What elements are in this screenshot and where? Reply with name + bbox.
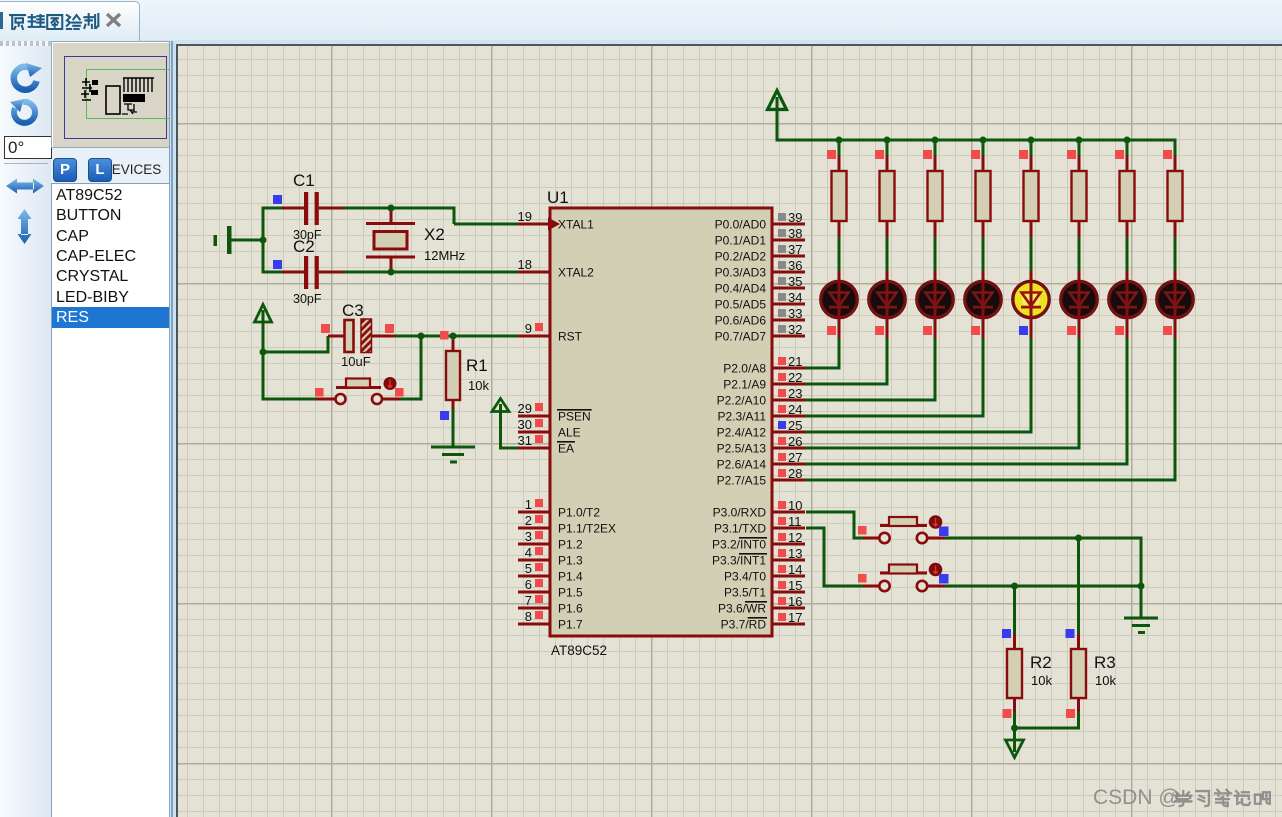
push button key2 <box>879 563 942 592</box>
svg-text:9: 9 <box>525 321 532 336</box>
svg-text:10uF: 10uF <box>341 354 371 369</box>
pin-state square above resistor <box>923 150 932 159</box>
svg-text:R2: R2 <box>1030 653 1052 672</box>
pin 31 (EA) of U1 <box>518 433 575 455</box>
left toolbar strip <box>0 46 51 817</box>
junction at ground tie <box>260 237 267 244</box>
list item CAP <box>56 226 89 247</box>
svg-text:P3.6/WR: P3.6/WR <box>718 601 766 615</box>
svg-text:R1: R1 <box>466 356 488 375</box>
pin-state square (C3 left) <box>321 324 330 333</box>
svg-text:P3.5/T1: P3.5/T1 <box>724 585 766 599</box>
pin-state square (button left) <box>315 388 324 397</box>
pin-state square (R2 top) <box>1002 629 1011 638</box>
svg-text:P2.5/A13: P2.5/A13 <box>717 441 767 455</box>
junction key2/ground <box>1138 583 1145 590</box>
pin 29 (PSEN) of U1 <box>518 401 592 423</box>
overview/preview panel <box>51 41 173 148</box>
svg-text:16: 16 <box>788 594 802 609</box>
pin 6 (P1.5) of U1 <box>518 577 583 599</box>
resistor R5 (LED ballast, column 2) <box>880 140 895 271</box>
push button key1 <box>879 515 942 543</box>
pin 26 (P2.5/A13) of U1 <box>717 434 805 455</box>
pin 37 (P0.2/AD2) of U1 <box>715 242 805 263</box>
svg-text:8: 8 <box>525 609 532 624</box>
pin 14 (P3.4/T0) of U1 <box>724 562 805 583</box>
pin-state square below LED <box>875 326 884 335</box>
svg-text:P0.0/AD0: P0.0/AD0 <box>715 217 767 231</box>
svg-text:38: 38 <box>788 226 802 241</box>
pin-state square above resistor <box>971 150 980 159</box>
ground symbol (bottom right) <box>1124 617 1158 635</box>
resistor R3 10k <box>1071 538 1086 730</box>
LED D1 <box>821 271 857 338</box>
svg-text:P3.1/TXD: P3.1/TXD <box>714 521 766 535</box>
junction on LED bus <box>1124 137 1131 144</box>
pin-state square (R3 bottom) <box>1066 709 1075 718</box>
svg-text:ALE: ALE <box>558 425 581 439</box>
svg-text:28: 28 <box>788 466 802 481</box>
resistor R7 (LED ballast, column 4) <box>976 140 991 271</box>
svg-text:P3.3/INT1: P3.3/INT1 <box>712 553 766 567</box>
svg-text:1: 1 <box>525 497 532 512</box>
svg-text:31: 31 <box>518 433 532 448</box>
svg-text:P2.3/A11: P2.3/A11 <box>718 409 767 423</box>
list item BUTTON <box>56 205 121 226</box>
svg-text:21: 21 <box>788 354 802 369</box>
resistor R1 10k <box>446 340 460 447</box>
svg-text:29: 29 <box>518 401 532 416</box>
svg-text:17: 17 <box>788 610 802 625</box>
LED D3 <box>917 271 953 338</box>
resistor R11 (LED ballast, column 8) <box>1168 140 1183 271</box>
splitter between panel and canvas <box>169 41 177 817</box>
svg-text:P0.1/AD1: P0.1/AD1 <box>715 233 767 247</box>
svg-text:22: 22 <box>788 370 802 385</box>
svg-text:P2.7/A15: P2.7/A15 <box>717 473 767 487</box>
junction RST node B <box>450 333 457 340</box>
DEVICES header text <box>102 162 161 177</box>
leftover tab fragment <box>0 12 3 29</box>
junction bottom tie <box>1011 725 1018 732</box>
svg-text:10k: 10k <box>1095 673 1116 688</box>
list item CRYSTAL <box>56 266 128 287</box>
pin 36 (P0.3/AD3) of U1 <box>715 258 805 279</box>
svg-text:15: 15 <box>788 578 802 593</box>
wire key2 to ground column <box>928 585 1143 588</box>
pin 7 (P1.6) of U1 <box>518 593 583 615</box>
pin 21 (P2.0/A8) of U1 <box>723 354 805 375</box>
list item LED-BIBY <box>56 287 129 308</box>
wire button left leg <box>263 398 335 401</box>
list item CAP-ELEC <box>56 246 136 267</box>
svg-text:C3: C3 <box>342 301 364 320</box>
svg-text:11: 11 <box>788 514 802 529</box>
pin-state square below LED <box>971 326 980 335</box>
wire P2.2 to LED column 3 <box>805 338 937 402</box>
pin-state square (key1 left) <box>858 526 867 535</box>
svg-text:12MHz: 12MHz <box>424 248 465 263</box>
LED D7 <box>1109 271 1145 338</box>
pin 24 (P2.3/A11) of U1 <box>718 402 805 423</box>
list item RES (selected) <box>52 307 173 328</box>
junction below VCC arrow <box>260 349 267 356</box>
pin 5 (P1.4) of U1 <box>518 561 583 583</box>
svg-text:5: 5 <box>525 561 532 576</box>
wire VCC to button row <box>262 352 265 401</box>
ground symbol (left of C1/C2) <box>214 226 264 254</box>
LED D5 (lit, yellow) <box>1013 271 1049 338</box>
pin 12 (P3.2/INT0) of U1 <box>712 530 805 551</box>
resistor R2 10k <box>1007 586 1022 730</box>
wire C2 to XTAL2 <box>343 271 518 274</box>
LED D8 <box>1157 271 1193 338</box>
svg-text:P1.5: P1.5 <box>558 585 583 599</box>
preview thumbnail schematic <box>78 70 158 120</box>
wire C1/C2 left vertical <box>262 207 265 274</box>
wire RST node to pin 9 <box>453 335 518 338</box>
svg-text:39: 39 <box>788 210 802 225</box>
pin 34 (P0.5/AD5) of U1 <box>715 290 805 311</box>
list item AT89C52 <box>56 185 122 206</box>
svg-text:37: 37 <box>788 242 802 257</box>
pin 8 (P1.7) of U1 <box>518 609 583 631</box>
pin 13 (P3.3/INT1) of U1 <box>712 546 805 567</box>
pin 32 (P0.7/AD7) of U1 <box>715 322 805 343</box>
svg-text:18: 18 <box>518 257 532 272</box>
push button (reset) <box>336 377 397 404</box>
wire P2.1 to LED column 2 <box>805 338 889 386</box>
wire P2.0 to LED column 1 <box>805 338 841 370</box>
pin-state square above resistor <box>827 150 836 159</box>
svg-text:32: 32 <box>788 322 802 337</box>
watermark CSDN <box>1093 786 1180 810</box>
svg-text:P3.0/RXD: P3.0/RXD <box>713 505 767 519</box>
rotate counter-clockwise icon <box>10 99 41 128</box>
device list box <box>51 183 171 817</box>
svg-text:7: 7 <box>525 593 532 608</box>
pin 30 (ALE) of U1 <box>518 417 581 439</box>
svg-text:26: 26 <box>788 434 802 449</box>
junction key2/R2 <box>1011 583 1018 590</box>
pin 35 (P0.4/AD4) of U1 <box>715 274 805 295</box>
pin-state square (C3 right) <box>385 324 394 333</box>
ground symbol (below R1) <box>431 446 475 464</box>
junction on LED bus <box>836 137 843 144</box>
svg-text:14: 14 <box>788 562 802 577</box>
svg-text:19: 19 <box>518 209 532 224</box>
pin 18 (XTAL2) of U1 <box>518 257 595 279</box>
pin-state square (C2) <box>273 260 282 269</box>
svg-text:XTAL1: XTAL1 <box>558 217 594 231</box>
svg-text:P0.7/AD7: P0.7/AD7 <box>715 329 767 343</box>
pin 16 (P3.6/WR) of U1 <box>718 594 805 615</box>
resistor R9 (LED ballast, column 6) <box>1072 140 1087 271</box>
pin 4 (P1.3) of U1 <box>518 545 583 567</box>
svg-text:10k: 10k <box>468 378 489 393</box>
strip below tab bar <box>0 40 1282 46</box>
pin 33 (P0.6/AD6) of U1 <box>715 306 805 327</box>
svg-text:P0.3/AD3: P0.3/AD3 <box>715 265 767 279</box>
svg-text:P1.7: P1.7 <box>558 617 583 631</box>
svg-text:2: 2 <box>525 513 532 528</box>
junction on LED bus <box>884 137 891 144</box>
pin 28 (P2.7/A15) of U1 <box>717 466 805 487</box>
pin-state square above resistor <box>875 150 884 159</box>
svg-text:R3: R3 <box>1094 653 1116 672</box>
LED D2 <box>869 271 905 338</box>
pin-state square (button right) <box>395 388 404 397</box>
svg-text:10: 10 <box>788 498 802 513</box>
svg-text:P3.7/RD: P3.7/RD <box>721 617 767 631</box>
pin 23 (P2.2/A10) of U1 <box>717 386 805 407</box>
svg-text:P2.4/A12: P2.4/A12 <box>717 425 767 439</box>
pin 3 (P1.2) of U1 <box>518 529 583 551</box>
svg-text:30pF: 30pF <box>293 292 322 306</box>
junction RST node A <box>418 333 425 340</box>
junction on LED bus <box>932 137 939 144</box>
svg-text:24: 24 <box>788 402 802 417</box>
pin-state square (key2 right) <box>939 574 949 584</box>
svg-text:P3.2/INT0: P3.2/INT0 <box>712 537 766 551</box>
XTAL1 input arrow <box>548 218 560 231</box>
pin 10 (P3.0/RXD) of U1 <box>713 498 805 519</box>
svg-text:34: 34 <box>788 290 802 305</box>
pin-state square below LED <box>1067 326 1076 335</box>
svg-text:12: 12 <box>788 530 802 545</box>
preview viewport border (green) <box>86 69 172 119</box>
pin-state square (C1) <box>273 195 282 204</box>
svg-text:P1.1/T2EX: P1.1/T2EX <box>558 521 616 535</box>
wire P2.4 to LED column 5 <box>805 338 1033 434</box>
pin 39 (P0.0/AD0) of U1 <box>715 210 805 231</box>
wire P2.3 to LED column 4 <box>805 338 985 418</box>
svg-text:P0.6/AD6: P0.6/AD6 <box>715 313 767 327</box>
svg-text:27: 27 <box>788 450 802 465</box>
svg-text:P0.5/AD5: P0.5/AD5 <box>715 297 767 311</box>
svg-text:6: 6 <box>525 577 532 592</box>
junction on LED bus <box>1028 137 1035 144</box>
svg-text:P2.6/A14: P2.6/A14 <box>717 457 767 471</box>
capacitor C1 30pF <box>263 192 343 225</box>
tab bar <box>0 0 1282 43</box>
pin-state square below LED <box>923 326 932 335</box>
svg-text:U1: U1 <box>547 188 569 207</box>
wire VCC to C3 <box>263 335 344 354</box>
rotate clockwise icon <box>8 61 42 93</box>
IC U1 AT89C52 body <box>550 208 772 636</box>
wire LED supply bus <box>776 139 1177 142</box>
svg-text:P1.3: P1.3 <box>558 553 583 567</box>
wire ground drop (right) <box>1140 538 1143 617</box>
vertical mirror icon <box>16 209 33 244</box>
pin-state square (RST wire) <box>440 331 449 340</box>
pin-state square (key1 right) <box>939 527 949 537</box>
LED D4 <box>965 271 1001 338</box>
pin 9 (RST) of U1 <box>518 321 583 343</box>
svg-text:25: 25 <box>788 418 802 433</box>
capacitor C2 30pF <box>263 256 343 289</box>
svg-text:PSEN: PSEN <box>558 409 591 423</box>
junction key1/R3 <box>1075 535 1082 542</box>
power symbol VCC arrow (EA pin) <box>492 399 518 450</box>
pin-state square (R3 top) <box>1066 629 1075 638</box>
svg-text:P1.6: P1.6 <box>558 601 583 615</box>
svg-text:35: 35 <box>788 274 802 289</box>
power-down arrow symbol <box>1006 728 1024 758</box>
resistor R6 (LED ballast, column 3) <box>928 140 943 271</box>
svg-text:P1.2: P1.2 <box>558 537 583 551</box>
power symbol VCC arrow (top right) <box>768 91 787 142</box>
capacitor C3 10uF (electrolytic) <box>345 319 396 353</box>
pin-state square (R1 bottom) <box>440 411 449 420</box>
svg-text:23: 23 <box>788 386 802 401</box>
wire P2.5 to LED column 6 <box>805 338 1081 450</box>
LED D6 <box>1061 271 1097 338</box>
pin-state square above resistor <box>1067 150 1076 159</box>
wire P3.1 to key2 <box>806 527 880 588</box>
pin 1 (P1.0/T2) of U1 <box>518 497 600 519</box>
P button <box>53 158 77 182</box>
pin 15 (P3.5/T1) of U1 <box>724 578 805 599</box>
svg-text:P0.4/AD4: P0.4/AD4 <box>715 281 767 295</box>
power symbol VCC arrow (reset circuit) <box>255 305 272 354</box>
rotation angle field 0 deg <box>4 136 52 159</box>
pin-state square below LED <box>1163 326 1172 335</box>
svg-text:RST: RST <box>558 329 583 343</box>
wire R2-R3 bottom tie <box>1015 727 1079 730</box>
svg-text:P3.4/T0: P3.4/T0 <box>724 569 766 583</box>
svg-text:36: 36 <box>788 258 802 273</box>
junction on LED bus <box>1076 137 1083 144</box>
resistor R8 (LED ballast, column 5) <box>1024 140 1039 271</box>
wire P2.7 to LED column 8 <box>805 338 1177 482</box>
pin 11 (P3.1/TXD) of U1 <box>714 514 805 535</box>
svg-text:P2.2/A10: P2.2/A10 <box>717 393 767 407</box>
junction crystal top <box>388 205 395 212</box>
wire key1 to R3 column <box>928 537 1143 540</box>
pin-state square above resistor <box>1019 150 1028 159</box>
pin 38 (P0.1/AD1) of U1 <box>715 226 805 247</box>
pin-state square (key2 left) <box>858 574 867 583</box>
svg-text:C1: C1 <box>293 171 315 190</box>
svg-text:10k: 10k <box>1031 673 1052 688</box>
resistor R4 (LED ballast, column 1) <box>832 140 847 271</box>
svg-text:P2.0/A8: P2.0/A8 <box>723 361 766 375</box>
resistor R10 (LED ballast, column 7) <box>1120 140 1135 271</box>
tab close X <box>104 11 124 30</box>
svg-text:P2.1/A9: P2.1/A9 <box>723 377 766 391</box>
pin 2 (P1.1/T2EX) of U1 <box>518 513 616 535</box>
wire P3.0 to key1 <box>806 511 880 540</box>
svg-text:30: 30 <box>518 417 532 432</box>
svg-text:33: 33 <box>788 306 802 321</box>
wire C1 to XTAL1 (with jog) <box>343 207 518 226</box>
wire C3 to RST node <box>395 335 455 338</box>
svg-text:C2: C2 <box>293 237 315 256</box>
svg-text:AT89C52: AT89C52 <box>551 643 607 658</box>
pin-state square above resistor <box>1163 150 1172 159</box>
svg-text:P1.0/T2: P1.0/T2 <box>558 505 600 519</box>
pin 17 (P3.7/RD) of U1 <box>721 610 805 631</box>
pin 27 (P2.6/A14) of U1 <box>717 450 805 471</box>
svg-text:P1.4: P1.4 <box>558 569 583 583</box>
junction crystal bottom <box>388 269 395 276</box>
tab 原理图绘制 (selected) <box>0 1 140 42</box>
pin-state square above resistor <box>1115 150 1124 159</box>
crystal X2 12MHz <box>366 208 415 272</box>
horizontal mirror icon <box>6 177 44 195</box>
preview sheet border (blue) <box>64 56 167 139</box>
wire P2.6 to LED column 7 <box>805 338 1129 466</box>
svg-text:13: 13 <box>788 546 802 561</box>
svg-text:XTAL2: XTAL2 <box>558 265 594 279</box>
pin 25 (P2.4/A12) of U1 <box>717 418 805 439</box>
pin-state square below LED <box>1115 326 1124 335</box>
svg-text:4: 4 <box>525 545 532 560</box>
svg-text:EA: EA <box>558 441 574 455</box>
pin 22 (P2.1/A9) of U1 <box>723 370 805 391</box>
L button <box>88 158 112 182</box>
junction on LED bus <box>980 137 987 144</box>
wire button right leg <box>383 337 423 401</box>
pin-state square below LED <box>1019 326 1028 335</box>
svg-text:3: 3 <box>525 529 532 544</box>
pin-state square (R2 bottom) <box>1003 709 1012 718</box>
svg-text:P0.2/AD2: P0.2/AD2 <box>715 249 767 263</box>
pin-state square below LED <box>827 326 836 335</box>
pin 19 (XTAL1) of U1 <box>518 209 595 231</box>
svg-text:X2: X2 <box>424 225 445 244</box>
